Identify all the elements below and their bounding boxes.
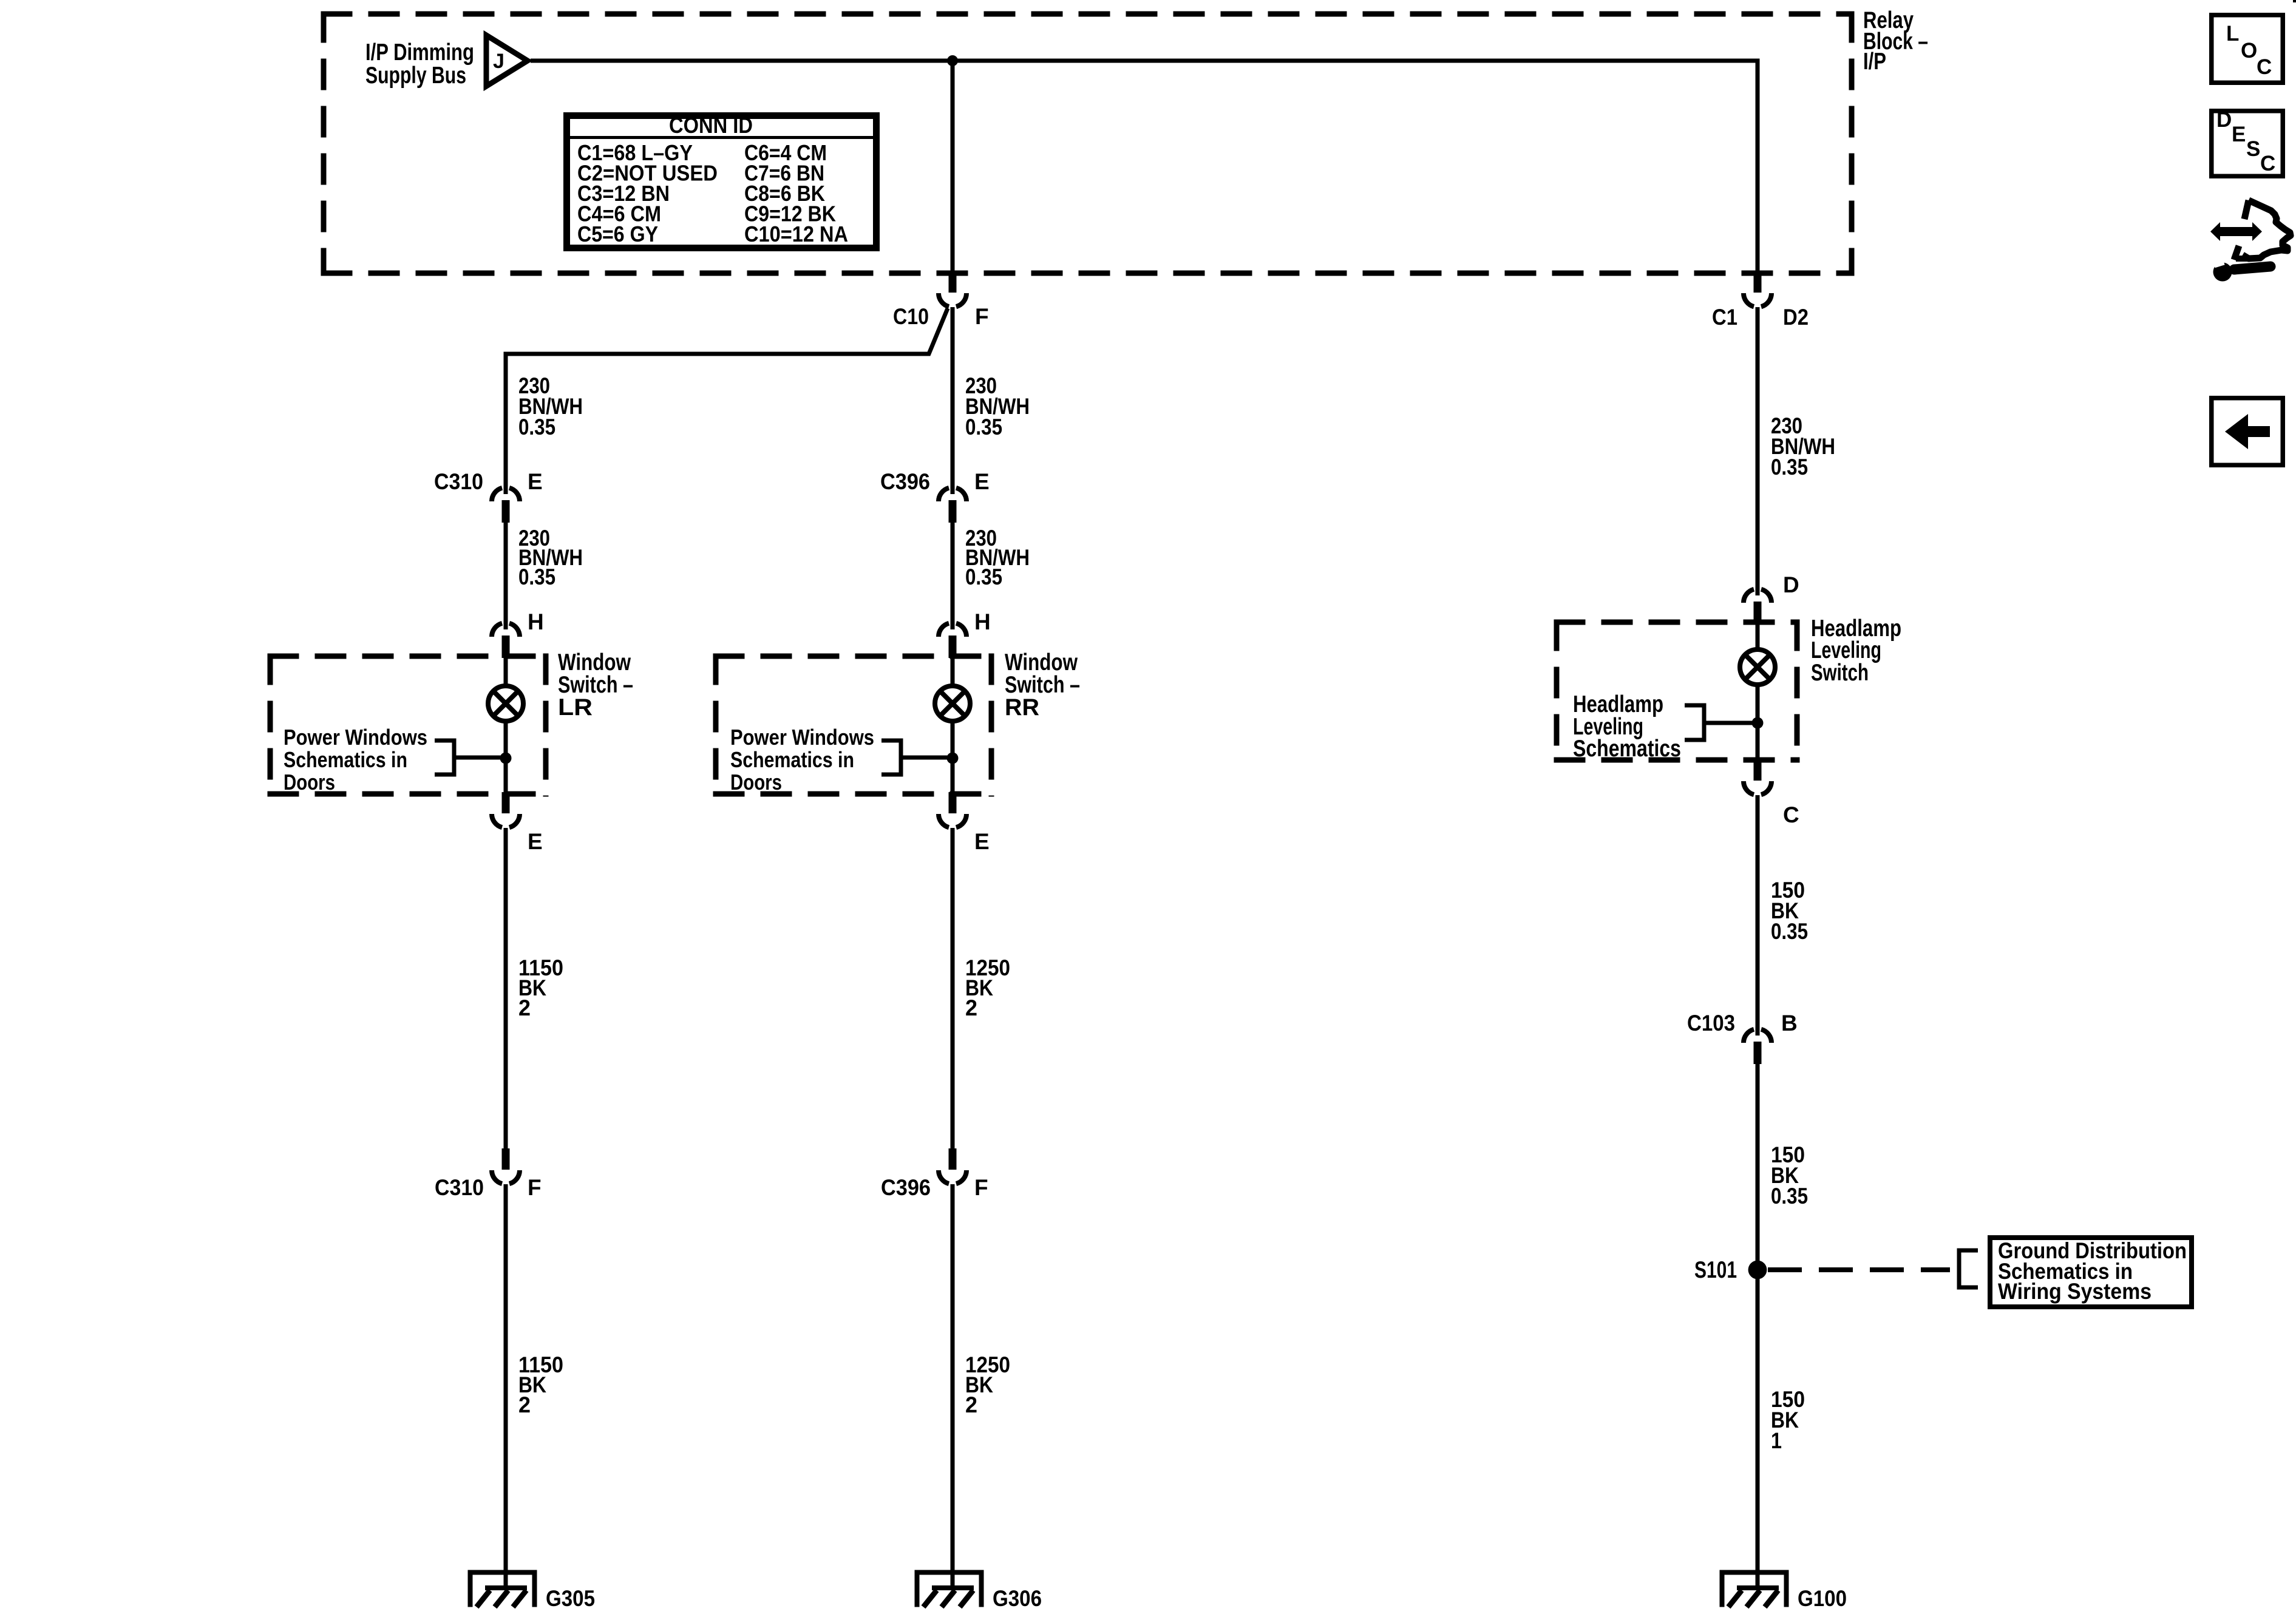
svg-text:C310: C310: [434, 469, 483, 494]
svg-text:S: S: [2246, 137, 2260, 161]
svg-text:2: 2: [518, 1392, 531, 1417]
svg-text:0.35: 0.35: [518, 564, 555, 589]
svg-text:C: C: [1783, 802, 1799, 827]
svg-text:C10=12 NA: C10=12 NA: [744, 222, 848, 246]
svg-text:E: E: [528, 469, 543, 494]
svg-text:Schematics: Schematics: [1573, 736, 1681, 762]
svg-text:S101: S101: [1694, 1257, 1737, 1283]
svg-text:E: E: [528, 829, 543, 854]
svg-text:C10: C10: [893, 304, 929, 329]
svg-text:1: 1: [1771, 1428, 1782, 1453]
svg-text:H: H: [528, 609, 544, 634]
svg-text:F: F: [975, 304, 989, 329]
svg-text:2: 2: [965, 1392, 977, 1417]
svg-text:E: E: [974, 829, 990, 854]
svg-text:H: H: [974, 609, 991, 634]
svg-text:0.35: 0.35: [1771, 1184, 1808, 1209]
svg-text:2: 2: [518, 995, 531, 1020]
svg-text:Schematics in: Schematics in: [284, 747, 407, 772]
svg-text:0.35: 0.35: [1771, 919, 1808, 944]
svg-text:L: L: [2226, 22, 2239, 46]
svg-text:G306: G306: [993, 1586, 1042, 1611]
svg-text:I/P: I/P: [1863, 49, 1886, 75]
svg-text:0.35: 0.35: [965, 564, 1002, 589]
svg-text:RR: RR: [1005, 694, 1039, 720]
svg-text:B: B: [1781, 1011, 1798, 1036]
svg-text:J: J: [493, 50, 504, 73]
svg-text:E: E: [974, 469, 990, 494]
svg-text:I/P Dimming: I/P Dimming: [365, 39, 474, 66]
svg-text:E: E: [2232, 123, 2246, 146]
svg-text:0.35: 0.35: [965, 415, 1002, 439]
svg-text:C: C: [2260, 152, 2275, 175]
svg-text:C5=6 GY: C5=6 GY: [577, 222, 658, 246]
svg-text:Switch: Switch: [1811, 660, 1869, 686]
svg-text:G305: G305: [546, 1586, 595, 1611]
svg-text:C: C: [2257, 55, 2272, 79]
svg-text:D: D: [1783, 572, 1799, 597]
svg-text:Supply Bus: Supply Bus: [365, 63, 466, 89]
svg-text:D2: D2: [1783, 305, 1809, 330]
svg-text:CONN ID: CONN ID: [669, 113, 753, 138]
svg-text:Wiring Systems: Wiring Systems: [1998, 1279, 2152, 1304]
svg-text:D: D: [2216, 108, 2232, 132]
svg-text:C1: C1: [1712, 305, 1737, 330]
svg-text:G100: G100: [1798, 1586, 1847, 1611]
svg-text:O: O: [2241, 39, 2257, 63]
svg-text:0.35: 0.35: [1771, 455, 1808, 480]
svg-text:Schematics in: Schematics in: [730, 747, 854, 772]
svg-text:0.35: 0.35: [518, 415, 555, 439]
svg-text:Power Windows: Power Windows: [284, 725, 427, 750]
svg-text:F: F: [974, 1175, 988, 1200]
svg-text:Power Windows: Power Windows: [730, 725, 874, 750]
svg-text:C103: C103: [1687, 1011, 1735, 1036]
svg-text:Doors: Doors: [730, 770, 782, 795]
svg-text:F: F: [528, 1175, 542, 1200]
svg-text:C396: C396: [880, 469, 930, 494]
svg-text:Doors: Doors: [284, 770, 335, 795]
svg-text:2: 2: [965, 995, 977, 1020]
svg-text:C396: C396: [881, 1175, 931, 1200]
svg-text:LR: LR: [558, 694, 593, 720]
svg-text:C310: C310: [435, 1175, 484, 1200]
